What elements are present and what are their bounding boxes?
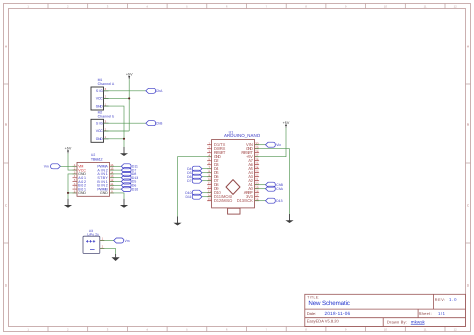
svg-text:GND: GND bbox=[78, 191, 86, 195]
arduino U1 body bbox=[212, 140, 255, 208]
wire U1 D11 to flag bbox=[202, 196, 211, 198]
U2 right pin names bbox=[97, 165, 108, 196]
svg-text:Date:: Date: bbox=[307, 311, 317, 316]
wire M2 GND bbox=[104, 139, 124, 147]
battery plus marks bbox=[86, 240, 95, 243]
svg-text:+5V: +5V bbox=[65, 147, 72, 151]
U1 right pins bbox=[255, 145, 260, 201]
net flag D7 bbox=[192, 178, 202, 183]
svg-text:Sheet:: Sheet: bbox=[419, 311, 432, 316]
svg-text:REV:: REV: bbox=[435, 298, 446, 302]
svg-text:10: 10 bbox=[384, 4, 388, 8]
svg-text:11: 11 bbox=[424, 327, 427, 331]
svg-text:Channel b: Channel b bbox=[98, 114, 115, 118]
power +5V (above motors) bbox=[126, 72, 133, 79]
arduino diamond mark bbox=[226, 180, 240, 195]
net flag ChB bbox=[146, 121, 156, 126]
ground (battery, solid) bbox=[112, 254, 120, 261]
M1 pin numbers 3 2 1 bbox=[105, 87, 107, 106]
svg-text:GND: GND bbox=[96, 137, 103, 141]
svg-text:ChA: ChA bbox=[276, 187, 283, 191]
net flag D10 (U2 side) bbox=[121, 187, 131, 192]
svg-text:12: 12 bbox=[454, 327, 458, 331]
wire U2 BIN2 to D6 bbox=[110, 184, 121, 186]
U2 right pins bbox=[110, 166, 115, 193]
wire U1 GND right to ground bbox=[255, 149, 290, 214]
wire U2 AIN2 to D7 bbox=[110, 169, 121, 171]
wire U1 A0 to ChA bbox=[255, 188, 266, 190]
U2 pin numbers bbox=[74, 163, 114, 194]
wire U1 A1 to ChB bbox=[255, 184, 266, 186]
svg-text:GND: GND bbox=[96, 104, 103, 108]
wire U2 GND row3 to rail bbox=[68, 174, 76, 193]
svg-text:B: B bbox=[5, 122, 7, 126]
svg-text:U2: U2 bbox=[91, 153, 95, 157]
junction M1/M2 GND bbox=[123, 138, 125, 140]
ground (U1 right) bbox=[285, 214, 293, 223]
svg-text:Vm: Vm bbox=[44, 165, 49, 169]
wire U1 D7 to flag bbox=[202, 180, 211, 182]
wire +5V rail down to M2 VCC bbox=[128, 79, 130, 131]
battery minus mark bbox=[90, 248, 95, 250]
wire U2 BIN1 to D5 bbox=[110, 181, 121, 183]
net flag D13 bbox=[266, 198, 276, 203]
ground (U2 right) bbox=[120, 199, 128, 208]
svg-text:Vin: Vin bbox=[276, 143, 281, 147]
net flag D11 (U2 side) bbox=[121, 164, 131, 169]
driver U2 TB6612 body bbox=[77, 162, 110, 196]
net flag D13 (U2 side) bbox=[121, 175, 131, 180]
svg-text:ARDUINO_NANO: ARDUINO_NANO bbox=[224, 133, 261, 138]
net flag D7 (U2 side) bbox=[121, 168, 131, 173]
U1 pin numbers bbox=[208, 141, 259, 201]
svg-text:Channel A: Channel A bbox=[98, 82, 115, 86]
wire U2 right GND down bbox=[110, 193, 124, 199]
svg-text:12: 12 bbox=[454, 4, 458, 8]
net flag D6 (U2 side) bbox=[121, 183, 131, 188]
svg-text:B: B bbox=[467, 122, 469, 126]
svg-text:D11: D11 bbox=[186, 195, 192, 199]
svg-text:1/1: 1/1 bbox=[438, 311, 446, 316]
net flag Vm (U3) bbox=[114, 238, 124, 243]
net flag D4 bbox=[192, 166, 202, 171]
motor M2 Channel b body bbox=[91, 119, 104, 142]
title block labels bbox=[307, 296, 446, 325]
svg-text:SIG: SIG bbox=[96, 121, 103, 125]
wire U3 - to ground bbox=[100, 249, 115, 254]
battery U3 LiPo 2s body bbox=[83, 236, 100, 253]
wire U1 D6 to flag bbox=[202, 176, 211, 178]
U3 pin numbers 1 2 bbox=[102, 237, 104, 249]
svg-text:EasyEDA V5.8.20: EasyEDA V5.8.20 bbox=[307, 318, 340, 323]
U2 left pin names bbox=[78, 165, 86, 196]
motor M1 Channel A body bbox=[91, 87, 104, 110]
motor M1 designator bbox=[98, 78, 115, 86]
svg-text:+5V: +5V bbox=[126, 72, 133, 76]
wire M2 VCC bbox=[104, 130, 129, 132]
driver U2 designator bbox=[91, 153, 103, 162]
title block values bbox=[308, 297, 457, 324]
svg-text:10: 10 bbox=[384, 327, 388, 331]
svg-text:D13: D13 bbox=[276, 199, 282, 203]
motor M2 designator bbox=[98, 111, 115, 119]
junction M1 VCC / +5V rail bbox=[128, 97, 130, 99]
wire M1 GND down bbox=[104, 106, 124, 139]
wire U3 + to Vm bbox=[100, 240, 114, 242]
U1 left pin names bbox=[214, 142, 232, 203]
wire U1 D4 to flag bbox=[202, 168, 211, 170]
wire M1 VCC to +5V rail bbox=[104, 97, 129, 99]
svg-text:2018-11-06: 2018-11-06 bbox=[325, 311, 351, 316]
net flag ChA bbox=[146, 88, 156, 93]
net flag D10 bbox=[192, 190, 202, 195]
svg-text:Drawn By:: Drawn By: bbox=[387, 319, 407, 324]
wire U1 VIN to Vin flag bbox=[255, 144, 266, 146]
svg-text:TB6612: TB6612 bbox=[91, 157, 103, 161]
wire M1 SIG to ChA bbox=[104, 90, 146, 92]
wire U2 PWMB to D10 bbox=[110, 188, 121, 190]
arduino U1 designator bbox=[224, 130, 261, 138]
wire U2 PWMA to D11 bbox=[110, 165, 121, 167]
svg-text:D13/SCK: D13/SCK bbox=[237, 198, 253, 203]
ground (motors) bbox=[120, 147, 128, 156]
wire U2 STBY to D13 bbox=[110, 177, 121, 179]
svg-text:mkwsk: mkwsk bbox=[411, 319, 426, 324]
wire +5V to U2 VCC bbox=[68, 153, 76, 170]
net flag D5 (U2 side) bbox=[121, 179, 131, 184]
net flag ChA (U1) bbox=[266, 186, 276, 191]
svg-text:D12/MISO: D12/MISO bbox=[214, 198, 232, 203]
arduino usb tab bbox=[228, 208, 240, 214]
wire M2 SIG to ChB bbox=[104, 122, 146, 124]
wire U1 D13/SCK to D13 bbox=[255, 200, 266, 202]
svg-text:ChA: ChA bbox=[156, 89, 163, 93]
junction U2 GND bbox=[67, 192, 69, 194]
M1 pins SIG VCC GND bbox=[104, 91, 109, 106]
wire U1 D10 to flag bbox=[202, 192, 211, 194]
net flag D6 bbox=[192, 174, 202, 179]
svg-text:SIG: SIG bbox=[96, 89, 103, 93]
svg-text:+5V: +5V bbox=[283, 121, 290, 125]
title block bbox=[305, 294, 466, 326]
net flag D5 bbox=[192, 170, 202, 175]
svg-text:1.0: 1.0 bbox=[449, 297, 457, 302]
power +5V (U1 right) bbox=[283, 121, 290, 128]
svg-text:Vm: Vm bbox=[125, 239, 130, 243]
ground (U1 left) bbox=[173, 217, 181, 226]
net flag ChB (U1) bbox=[266, 182, 276, 187]
power +5V (U2) bbox=[65, 147, 72, 154]
svg-text:15: 15 bbox=[208, 197, 212, 201]
net flag D11 bbox=[192, 194, 202, 199]
svg-text:D10: D10 bbox=[132, 187, 138, 191]
U1 left pins bbox=[207, 145, 212, 201]
svg-text:D7: D7 bbox=[187, 179, 191, 183]
wire U2 AIN1 to D8 bbox=[110, 173, 121, 175]
net flag D8 (U2 side) bbox=[121, 171, 131, 176]
wire U1 +5V up bbox=[255, 128, 286, 157]
net flag Vin bbox=[266, 142, 276, 147]
svg-text:11: 11 bbox=[424, 4, 427, 8]
svg-text:GND: GND bbox=[100, 191, 108, 195]
wire U1 GND left to ground bbox=[178, 157, 212, 217]
M2 pin numbers 3 2 1 bbox=[105, 120, 107, 140]
wire U1 D5 to flag bbox=[202, 172, 211, 174]
svg-text:VCC: VCC bbox=[96, 97, 103, 101]
M2 pins SIG VCC GND bbox=[104, 123, 109, 139]
svg-text:ChB: ChB bbox=[156, 122, 163, 126]
U1 right pin names bbox=[237, 142, 254, 203]
battery U3 designator bbox=[87, 229, 99, 237]
U2 left pins bbox=[73, 166, 78, 193]
wire U2 GND row8 to ground bbox=[68, 193, 76, 199]
U3 pins bbox=[100, 241, 105, 249]
ground (U2 left) bbox=[64, 199, 72, 208]
wire Vm to U2 VM bbox=[60, 165, 76, 167]
svg-text:New Schematic: New Schematic bbox=[308, 300, 350, 307]
svg-text:VCC: VCC bbox=[96, 129, 103, 133]
